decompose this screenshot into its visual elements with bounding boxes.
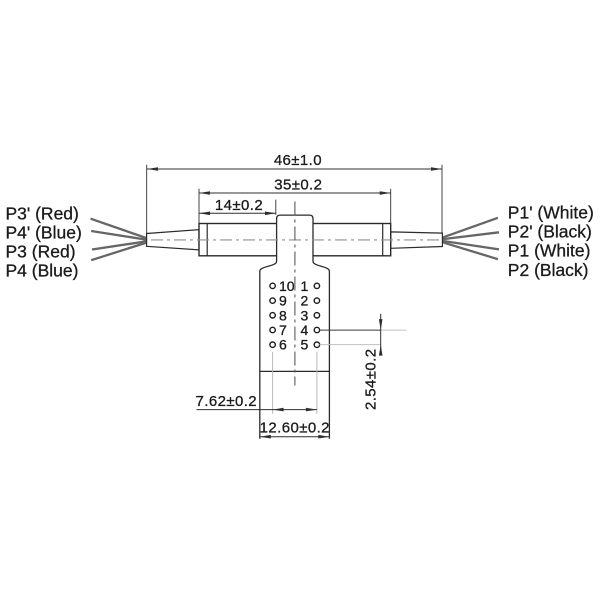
- pin5 leader line light: [319, 344, 380, 346]
- pin column extension line right (light): [316, 352, 318, 414]
- vertical center line: [294, 202, 296, 386]
- pin 7 circle: [270, 327, 275, 332]
- extension line tube right: [390, 189, 392, 223]
- left strain-relief boot cone: [147, 230, 199, 250]
- fiber pigtail right P2': [439, 232, 499, 239]
- svg-text:2.54±0.2: 2.54±0.2: [363, 349, 380, 410]
- pin 8 circle: [270, 313, 275, 318]
- svg-text:35±0.2: 35±0.2: [274, 176, 322, 193]
- dimension 46±1.0 line: [147, 168, 442, 170]
- fiber pigtail left P3: [92, 241, 150, 250]
- extension line left cone tip: [146, 165, 148, 233]
- pin 2 circle: [314, 298, 319, 303]
- svg-text:P3 (Red): P3 (Red): [6, 241, 76, 261]
- pin 9 circle: [270, 298, 275, 303]
- svg-text:12.60±0.2: 12.60±0.2: [260, 419, 330, 436]
- extension line neck left: [275, 200, 277, 215]
- pin 1 circle: [314, 283, 319, 288]
- pin4 leader line light: [381, 329, 407, 331]
- pin 4 circle: [314, 327, 319, 332]
- svg-text:8: 8: [279, 307, 287, 323]
- svg-text:P2 (Black): P2 (Black): [508, 260, 589, 280]
- svg-text:7.62±0.2: 7.62±0.2: [196, 393, 257, 410]
- dimension 35±0.2 line: [199, 192, 391, 194]
- svg-text:7: 7: [279, 322, 287, 338]
- svg-text:P4' (Blue): P4' (Blue): [6, 222, 82, 242]
- dimension 12.60±0.2 line: [260, 436, 330, 438]
- svg-text:P1' (White): P1' (White): [508, 202, 594, 222]
- svg-text:10: 10: [279, 278, 295, 294]
- extension line tube left: [198, 189, 200, 223]
- svg-text:P3' (Red): P3' (Red): [6, 203, 79, 223]
- pin 3 circle: [314, 313, 319, 318]
- left end-cap ring line: [206, 224, 208, 256]
- dimension 2.54±0.2 line: [380, 314, 382, 353]
- fiber pigtail left P3': [91, 219, 150, 240]
- svg-text:3: 3: [301, 307, 309, 323]
- pin block bottom edge: [260, 370, 330, 372]
- fiber pigtail left P4: [91, 242, 150, 261]
- svg-text:5: 5: [301, 337, 309, 353]
- svg-text:2: 2: [301, 293, 309, 309]
- pin 6 circle: [270, 342, 275, 347]
- switch housing T-piece (bump, neck, flare, pin block sides): [260, 215, 330, 439]
- pin column extension line left (light): [272, 352, 274, 414]
- pin4 leader line dark: [319, 329, 380, 331]
- svg-text:P1 (White): P1 (White): [508, 241, 591, 261]
- pin 5 circle: [314, 342, 319, 347]
- svg-text:P4 (Blue): P4 (Blue): [6, 260, 79, 280]
- svg-text:46±1.0: 46±1.0: [274, 152, 322, 169]
- fiber pigtail right P1': [439, 218, 498, 239]
- extension line right cone tip: [441, 165, 443, 233]
- pin 10 circle: [270, 283, 275, 288]
- svg-text:9: 9: [279, 293, 287, 309]
- fiber pigtail right P1: [439, 240, 499, 249]
- right strain-relief boot cone: [391, 232, 443, 248]
- main cylindrical body tube: [199, 224, 391, 256]
- dimension 14±0.2 line: [199, 212, 276, 214]
- svg-text:14±0.2: 14±0.2: [215, 197, 263, 214]
- dimension 7.62±0.2 line: [197, 409, 317, 411]
- svg-text:P2' (Black): P2' (Black): [508, 222, 592, 242]
- svg-text:1: 1: [301, 278, 309, 294]
- right end-cap ring line: [382, 224, 384, 256]
- svg-text:4: 4: [301, 322, 309, 338]
- fiber pigtail left P4': [91, 231, 150, 240]
- horizontal center line: [151, 239, 441, 241]
- svg-text:6: 6: [279, 337, 287, 353]
- fiber pigtail right P2: [439, 241, 498, 259]
